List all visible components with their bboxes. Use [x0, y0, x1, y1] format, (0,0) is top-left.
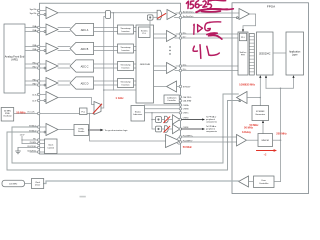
- node OVR tap: [151, 112, 153, 114]
- wire to synchronization logic arrow: [89, 129, 104, 132]
- wire PLLREFO- to FPGA: [182, 141, 237, 143]
- ground symbol: [16, 148, 21, 154]
- svg-text:ADC B: ADC B: [81, 48, 89, 51]
- svg-text:Control: Control: [47, 146, 54, 149]
- svg-text:Layer: Layer: [292, 54, 298, 57]
- wire timestamp A to JESD204B: [134, 28, 137, 32]
- svg-text:50 MHz: 50 MHz: [244, 126, 254, 130]
- driver amp lane0: [167, 10, 177, 20]
- page artifact dash: [80, 196, 86, 198]
- handwriting 156.25: [186, 1, 188, 8]
- pin IND-: [38, 84, 40, 86]
- handwriting 1D5: [193, 24, 196, 34]
- svg-text:(AFE): (AFE): [11, 59, 18, 62]
- svg-text:100 MHz: 100 MHz: [9, 183, 17, 185]
- MMCM block: [258, 134, 273, 147]
- svg-text:INA−: INA−: [33, 29, 38, 32]
- svg-text:components: components: [206, 121, 217, 124]
- wire status to OVRA: [145, 104, 180, 106]
- svg-text:Clock: Clock: [35, 182, 40, 184]
- SerDes PLL block: [139, 27, 151, 38]
- wire row4 stub: [30, 151, 37, 153]
- svg-text:OVRC: OVRC: [183, 113, 189, 115]
- pin CLK-: [38, 99, 40, 101]
- wire ADC A to timestamp A: [94, 28, 118, 32]
- pin INA-: [38, 30, 40, 32]
- svg-text:IND−: IND−: [33, 84, 39, 86]
- svg-text:50 MHz: 50 MHz: [183, 145, 193, 149]
- SYSREF generator block: [252, 106, 269, 121]
- svg-text:CLKCFG0: CLKCFG0: [27, 146, 36, 148]
- red mark serdes mux: [158, 14, 166, 19]
- svg-text:XI_CLK: XI_CLK: [27, 112, 35, 114]
- pin SysClk+: [38, 9, 40, 11]
- svg-text:CLK−: CLK−: [32, 100, 38, 102]
- comparator box row7: [156, 126, 162, 132]
- FPGA input buffer: [236, 9, 249, 20]
- pin CLKCFG1: [38, 151, 40, 153]
- MMCM input buffer: [237, 135, 247, 147]
- wire D0- to FPGA: [182, 70, 238, 72]
- svg-text:PLLREFO−: PLLREFO−: [183, 140, 194, 142]
- svg-text:INC+: INC+: [33, 63, 39, 65]
- wire pill to clock driver: [25, 183, 32, 185]
- wire ADC D to timestamp D: [94, 81, 118, 85]
- wire SYSREF buffer input: [247, 97, 260, 99]
- receiver amp SYNC1: [40, 124, 58, 136]
- pin XI_CLK: [38, 112, 40, 114]
- JESD204C block: [257, 32, 274, 75]
- wire INC+: [25, 63, 37, 65]
- calibration controller block: [164, 95, 179, 104]
- node PLLREFO- crossing: [227, 141, 229, 143]
- svg-text:Application: Application: [289, 51, 301, 54]
- wire branch down to clock net: [112, 13, 114, 90]
- wire SYNCB to JESD204B: [154, 86, 167, 88]
- clock driver block: [32, 179, 44, 189]
- FPGA boundary U2: [232, 3, 309, 194]
- FPGA SerDes PHY block: [238, 32, 248, 75]
- svg-text:CLK+: CLK+: [32, 94, 38, 96]
- svg-text:PLLEN: PLLEN: [30, 142, 37, 144]
- svg-text:SerDesOut+: SerDesOut+: [183, 10, 195, 13]
- svg-text:1.8 V: 1.8 V: [20, 135, 25, 137]
- svg-text:Timestamp: Timestamp: [120, 46, 131, 49]
- AFE block: [4, 24, 25, 93]
- wire 50MHz reference to PLLREFO driver: [90, 114, 166, 142]
- pin D0-: [175, 69, 182, 71]
- status indicators block: [131, 106, 145, 122]
- red mark clock mux: [93, 104, 101, 113]
- wire gate links row6: [162, 119, 173, 121]
- wire row3 stub: [18, 147, 37, 149]
- receiver amp SYNCB: [167, 81, 177, 92]
- ADC C: [70, 60, 94, 72]
- amplifier C (channel C): [40, 61, 58, 72]
- wire status to OVRB: [145, 108, 180, 110]
- wire ampC to ADC C: [58, 64, 70, 68]
- svg-text:Indicators: Indicators: [133, 113, 142, 116]
- wire INB+: [25, 46, 37, 48]
- receiver amp CLK: [40, 92, 58, 104]
- wire bottom 50MHz bus: [44, 181, 239, 184]
- svg-text:1 GHz: 1 GHz: [115, 96, 124, 100]
- pin SerDes1+: [176, 33, 182, 35]
- 50 MHz XTAL oscillator Y1: [1, 108, 14, 122]
- clock control block: [45, 139, 58, 154]
- svg-text:User: User: [261, 179, 266, 182]
- node MMCM clock tee: [280, 88, 282, 90]
- wire gate links row7: [162, 128, 173, 130]
- svg-text:Timestamp: Timestamp: [120, 81, 131, 84]
- svg-text:To FPGA or: To FPGA or: [206, 125, 217, 128]
- ADC D: [70, 77, 94, 89]
- comparator box row6: [156, 117, 162, 123]
- svg-text:ADC C: ADC C: [81, 65, 89, 68]
- pin OVRA: [179, 104, 181, 106]
- wire ampA to ADC A: [58, 28, 70, 32]
- driver amp lane1: [167, 31, 177, 42]
- wire 1 GHz clock to JESD204B: [104, 89, 136, 91]
- wire timestamp D to JESD204B: [134, 81, 137, 85]
- driver amp row7: [173, 124, 181, 133]
- svg-text:ADC D: ADC D: [81, 82, 89, 85]
- wire FPGA buffer to PLL: [243, 14, 256, 30]
- wire phase detector to mux: [153, 16, 157, 18]
- timestamp insertion D: [118, 79, 134, 88]
- svg-text:SYSREF: SYSREF: [256, 111, 265, 113]
- wire IND+: [25, 80, 37, 82]
- svg-text:Insertion: Insertion: [122, 49, 131, 52]
- svg-text:INC−: INC−: [33, 67, 39, 69]
- arrow OVRD1 to FPGA: [182, 128, 205, 130]
- amplifier A (channel A): [40, 24, 58, 35]
- pin SYNC1-: [38, 131, 40, 133]
- pin CLK+: [38, 93, 40, 95]
- svg-text:JESD204C: JESD204C: [259, 53, 271, 55]
- node PLLREFO+ crossing: [222, 136, 224, 138]
- driver amp PLLREFO: [166, 135, 181, 148]
- svg-text:Status: Status: [135, 110, 141, 113]
- pin OVRD0: [179, 118, 181, 120]
- node SYSREF tee: [260, 97, 262, 99]
- pin INA+: [38, 26, 40, 28]
- SYNC divider block: [74, 125, 89, 136]
- svg-text:SYNCB~: SYNCB~: [183, 86, 192, 88]
- svg-text:SYNC1+: SYNC1+: [29, 125, 38, 127]
- pin OVRB: [179, 108, 181, 110]
- svg-text:CALTRIG: CALTRIG: [183, 96, 192, 99]
- clock output buffer: [239, 176, 249, 187]
- clock source pill: [2, 180, 25, 186]
- driver amp row6: [173, 115, 181, 124]
- svg-text:INA+: INA+: [33, 25, 38, 28]
- ADC A: [70, 23, 94, 35]
- amplifier D (channel D): [40, 78, 58, 89]
- ADC chip boundary U1: [40, 3, 181, 154]
- pin SYNC1+: [38, 126, 40, 128]
- svg-text:SerDesOut−: SerDesOut−: [183, 15, 195, 18]
- wire JESD204C to application layer: [273, 52, 286, 54]
- svg-text:OVRB: OVRB: [183, 109, 189, 111]
- svg-text:INB+: INB+: [33, 45, 38, 47]
- wire IND-: [25, 84, 37, 86]
- svg-text:CLKCFG1: CLKCFG1: [27, 151, 36, 153]
- wire divider tap down: [101, 17, 106, 109]
- svg-text:OVRD: OVRD: [183, 118, 189, 120]
- pin OVRC: [179, 112, 181, 114]
- handwriting L: [207, 46, 220, 55]
- pin SerDes0-: [175, 16, 182, 18]
- svg-text:50 MHz: 50 MHz: [16, 110, 26, 114]
- svg-text:Controller: Controller: [167, 99, 176, 102]
- pin CLKCFG0: [38, 146, 40, 148]
- svg-text:SysClk−: SysClk−: [30, 13, 38, 15]
- wire XI_CLK internal: [40, 113, 94, 115]
- pin OVRD1: [179, 128, 181, 130]
- timestamp insertion B: [118, 44, 134, 53]
- pin SYNCB: [177, 85, 182, 87]
- wire buffer to MMCM: [247, 139, 259, 141]
- pin INC+: [38, 63, 40, 65]
- gate row6: [165, 116, 169, 123]
- svg-text:MMCM: MMCM: [262, 140, 269, 142]
- pin SerDes0+: [176, 12, 182, 14]
- wire XI_CLK: [14, 113, 38, 115]
- wire INA+: [25, 27, 37, 29]
- svg-text:SYNC: SYNC: [78, 128, 84, 130]
- wire SerDes0+ to FPGA: [182, 12, 239, 14]
- svg-text:250 MHz: 250 MHz: [276, 132, 287, 136]
- amplifier B (channel B): [40, 43, 58, 54]
- wire INA-: [25, 31, 37, 33]
- svg-text:Insertion: Insertion: [122, 83, 131, 86]
- wire JESD204B to lane2 amp: [154, 66, 167, 71]
- svg-text:SYNC1−: SYNC1−: [29, 130, 38, 132]
- wire config pins to clock control: [40, 140, 45, 152]
- node 1GHz junction: [103, 89, 105, 91]
- svg-text:Oscillator: Oscillator: [3, 115, 12, 118]
- svg-text:0-Delay: 0-Delay: [242, 131, 252, 134]
- svg-text:To synchronization logic: To synchronization logic: [105, 129, 129, 132]
- node pullup row1: [21, 139, 22, 140]
- red divide arrow under MMCM: [257, 149, 278, 152]
- wire D0+ to FPGA: [182, 65, 238, 67]
- wire MMCM clock to JESD204C with arrow: [265, 75, 267, 88]
- svg-text:50 MHz: 50 MHz: [4, 110, 11, 112]
- wire SYSREF to JESD204C with arrow: [259, 75, 261, 105]
- handwriting 4: [193, 46, 197, 51]
- SYSREF buffer: [237, 92, 248, 104]
- node MMCM out: [280, 139, 282, 141]
- wire SysClk net: [58, 12, 157, 14]
- node SysClk branch: [113, 12, 115, 14]
- pin INB-: [38, 49, 40, 51]
- application layer block: [286, 32, 304, 75]
- wire user controller to trunk: [274, 181, 281, 183]
- divider block on SysClk line: [106, 11, 111, 19]
- JESD204B block: [136, 25, 154, 103]
- svg-text:CALSTAT: CALSTAT: [183, 100, 192, 103]
- timestamp insertion A: [118, 25, 134, 34]
- svg-text:IND+: IND+: [33, 80, 39, 82]
- pin PLLREFO-: [179, 141, 181, 143]
- svg-text:JESD204B: JESD204B: [140, 64, 151, 66]
- wire CLK to clock mux: [58, 98, 94, 105]
- wire OVR tap down: [152, 113, 156, 129]
- svg-text:INB−: INB−: [33, 49, 38, 51]
- svg-text:components: components: [206, 130, 217, 133]
- pin PLLEN: [38, 142, 40, 144]
- gate row7: [165, 126, 169, 133]
- wire JESD204B to lane1 amp: [154, 34, 167, 38]
- wire SerDes1+ to FPGA: [182, 33, 238, 35]
- wire timestamp C to JESD204B: [134, 64, 137, 68]
- red mark row6: [164, 117, 170, 123]
- pin CALTRIG: [179, 96, 181, 98]
- svg-text:Insertion: Insertion: [122, 30, 131, 33]
- wire SerDes1- to FPGA: [182, 37, 238, 39]
- wire SYSREF- out: [7, 101, 241, 171]
- svg-text:OVRA: OVRA: [183, 104, 189, 107]
- svg-text:0.26662/5 MHz: 0.26662/5 MHz: [239, 84, 256, 86]
- pin PLLREFO+: [179, 136, 181, 138]
- wire phase detector to SerDes PLL: [149, 20, 151, 27]
- wire status to OVRC: [145, 112, 180, 114]
- transceiver pin ladder: [249, 34, 254, 76]
- arrow OVRD0 to FPGA: [182, 118, 205, 120]
- handwriting underline scribble: [196, 9, 233, 12]
- ADC B: [70, 42, 94, 54]
- arrowhead into PLL: [242, 29, 244, 32]
- wire MMCM output 250MHz: [273, 139, 281, 141]
- phase detector box: [147, 15, 153, 20]
- svg-text:SysClk+: SysClk+: [30, 9, 38, 11]
- wire FPGA clock trunk: [280, 88, 282, 181]
- pin PD: [38, 139, 40, 141]
- serdes clock mux: [157, 10, 162, 20]
- wire ADC B to timestamp B: [94, 47, 118, 51]
- pin CALSTAT: [179, 100, 181, 102]
- red mark row7: [164, 126, 170, 132]
- wire ampB to ADC B: [58, 47, 70, 51]
- wire MMCM to SYSREF generator with arrow: [262, 120, 264, 133]
- pin INC-: [38, 67, 40, 69]
- node XI tap: [89, 113, 91, 115]
- svg-text:Insertion: Insertion: [122, 66, 131, 69]
- pin IND+: [38, 80, 40, 82]
- svg-text:Driver: Driver: [35, 185, 41, 187]
- wire INB-: [25, 50, 37, 52]
- wire ADC C to timestamp C: [94, 64, 118, 68]
- wire PLLREFO+ to FPGA: [182, 136, 237, 138]
- svg-text:PLLREFO+: PLLREFO+: [183, 135, 194, 137]
- wire ampD to ADC D: [58, 81, 70, 85]
- receiver amp SysClk: [40, 7, 58, 19]
- svg-text:PHY: PHY: [241, 55, 246, 57]
- wire MMCM clock to application layer with arrow: [266, 75, 295, 88]
- node OVR branch: [151, 119, 153, 121]
- svg-text:SerDes: SerDes: [141, 31, 148, 33]
- wire INC-: [25, 67, 37, 69]
- svg-text:Timestamp: Timestamp: [120, 27, 131, 30]
- wire SYSREF+ out: [12, 94, 238, 163]
- clock mux: [94, 102, 101, 115]
- svg-text:Controller: Controller: [259, 182, 269, 185]
- svg-text:Timestamp: Timestamp: [120, 64, 131, 67]
- wire SYNC1 amp to divider: [58, 129, 74, 131]
- clock PLL block: [80, 108, 88, 115]
- svg-text:ADC A: ADC A: [81, 29, 89, 32]
- pin SysClk-: [38, 13, 40, 15]
- wire buffer to user controller: [249, 181, 254, 183]
- pin D0+: [176, 65, 182, 67]
- wire SerDes0- to FPGA: [182, 17, 237, 19]
- svg-text:To FPGA or: To FPGA or: [206, 115, 217, 118]
- svg-text:Calibration: Calibration: [167, 96, 177, 99]
- handwriting 1D5 swoosh: [207, 33, 222, 39]
- pin INB+: [38, 45, 40, 47]
- timestamp insertion C: [118, 62, 134, 71]
- supply 1.8V tie: [21, 136, 23, 143]
- svg-text:FPGA: FPGA: [267, 5, 275, 9]
- FPGA PLL block: [239, 33, 246, 41]
- pin SerDes1-: [175, 37, 182, 39]
- wire row1 stub: [22, 139, 37, 141]
- user controller block: [254, 176, 275, 188]
- svg-text:XTAL: XTAL: [5, 112, 11, 115]
- svg-text:Generator: Generator: [255, 113, 265, 116]
- ellipsis more lanes: [169, 46, 170, 54]
- svg-text:SerDes: SerDes: [240, 52, 247, 54]
- wire row2 stub: [22, 143, 37, 145]
- wire timestamp B to JESD204B: [134, 47, 137, 51]
- svg-text:Divider: Divider: [78, 130, 85, 133]
- svg-text:OVRE: OVRE: [183, 127, 189, 129]
- driver amp lane2: [167, 63, 177, 74]
